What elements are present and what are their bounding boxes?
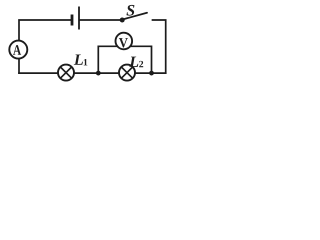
label L1 letter L	[74, 54, 83, 64]
wire: bottom side	[19, 72, 166, 74]
wire: switch to top-right corner, right side down	[153, 20, 166, 73]
wire: voltmeter sub-loop	[98, 46, 151, 73]
node: junction dot right (sub-loop to bottom wire)	[149, 71, 154, 76]
label S	[126, 5, 134, 16]
background	[0, 0, 178, 87]
node: junction dot left (sub-loop to bottom wire)	[96, 71, 101, 76]
wire: top-left corner, left side down to ammeter	[19, 20, 71, 41]
voltmeter V1 letter	[119, 38, 128, 47]
label L1 subscript 1	[84, 59, 88, 65]
battery B1 negative plate (short thick)	[71, 15, 74, 26]
wire: left side below ammeter to bottom-left corner	[18, 59, 20, 74]
label L2 subscript 2	[139, 61, 143, 67]
ammeter A1 body	[9, 41, 27, 59]
switch S pivot dot	[120, 18, 125, 23]
voltmeter V1 body	[116, 33, 133, 50]
battery B1 positive plate (long thin)	[78, 7, 80, 30]
lamp L2 body	[119, 65, 135, 81]
wire: battery to switch dot	[80, 19, 121, 21]
label L2 letter L	[129, 57, 138, 67]
lamp L1 body	[58, 65, 74, 81]
ammeter A1 letter	[13, 45, 21, 55]
switch S blade	[124, 13, 148, 19]
